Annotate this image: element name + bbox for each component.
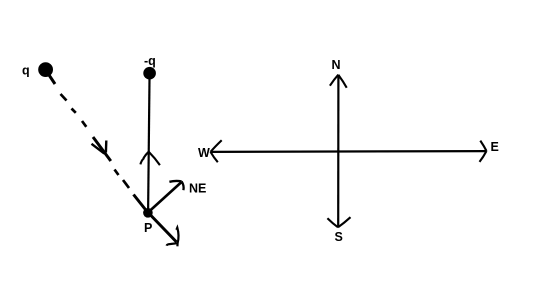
arrowhead W upper leg: [211, 140, 222, 152]
wire vertical line -q to P: [148, 79, 149, 211]
arrowhead W lower leg: [211, 152, 218, 162]
wire compass vertical line: [337, 75, 339, 227]
vector SE line from P: [150, 215, 177, 243]
wire dash segment: [61, 94, 67, 101]
arrowhead E lower leg: [480, 151, 487, 162]
wire dash solid approach to P: [134, 195, 148, 212]
charge -q dot: [143, 67, 156, 80]
arrowhead SE horizontal leg: [167, 243, 178, 246]
wire dash segment: [115, 170, 119, 176]
svg-text:S: S: [335, 230, 343, 244]
arrowhead mid dashed line leg top: [105, 141, 108, 153]
svg-text:P: P: [144, 221, 152, 235]
svg-text:-q: -q: [144, 54, 156, 68]
arrowhead S left leg: [327, 218, 338, 227]
point P dot: [143, 208, 153, 218]
arrowhead mid dashed line leg left: [92, 144, 105, 154]
arrowhead N right leg: [338, 75, 346, 88]
wire dash segment thick under arrowhead: [93, 137, 111, 161]
wire dash segment: [72, 109, 76, 113]
svg-text:q: q: [22, 64, 30, 78]
arrowhead N left leg: [330, 75, 338, 86]
arrowhead NE horizontal leg: [169, 180, 181, 183]
svg-text:N: N: [332, 58, 341, 72]
svg-text:E: E: [491, 140, 499, 154]
wire dash segment: [82, 121, 86, 127]
wire dashed line from q to P: solid start segment: [49, 75, 55, 84]
svg-text:W: W: [198, 146, 210, 160]
arrowhead up on vertical line right leg: [149, 152, 160, 165]
charge q dot: [38, 62, 53, 77]
arrowhead E upper leg: [480, 141, 486, 151]
wire dash segment: [123, 180, 129, 188]
arrowhead S right leg: [338, 217, 351, 227]
wire compass horizontal line: [211, 150, 486, 153]
arrowhead NE down leg: [182, 181, 184, 190]
arrowhead up on vertical line left leg: [140, 152, 148, 165]
vector NE line from P: [149, 183, 182, 213]
svg-text:NE: NE: [189, 181, 206, 195]
arrowhead SE vertical leg: [176, 228, 178, 247]
